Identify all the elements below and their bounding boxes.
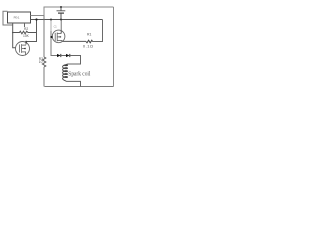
resistor R1 0.1ohm [86,40,93,43]
wire gate drop to Q2 and diodes [50,20,52,32]
wire between diodes [61,55,66,57]
transistor Q1 (MOSFET) [16,42,30,56]
svg-text:R1: R1 [87,33,91,37]
wire Q2 drain up to rail [60,30,62,33]
svg-text:0.1Ω: 0.1Ω [83,44,94,49]
resistor R2 (horizontal 10k) [13,31,37,34]
wire branch x36.5 from rail to Q1 drain [26,20,37,45]
capacitor C1 plates [60,7,62,11]
wire Q2 gate stub [51,36,53,38]
wire R3 bottom to rail [43,67,45,87]
junction R2 branch at inner rail [35,18,37,20]
wire left loop from box [3,11,13,25]
junction R3 line crossing inner rail [43,19,45,21]
wire box bottom pin to Q1 gate [13,23,16,48]
svg-text:R2: R2 [24,27,28,31]
wire right inner drop to R1 [93,20,103,42]
wire Q2 source to R1 [61,40,86,41]
wire R3 branch vertical [43,16,45,58]
svg-text:10K: 10K [23,34,30,38]
junction Q1 drain node [25,41,27,43]
svg-text:C1: C1 [54,25,58,29]
wire pin2 rail [31,19,103,21]
svg-text:10: 10 [39,60,43,64]
wire right edge V+ rail down [113,7,115,87]
junction gate drop at inner rail [50,19,52,21]
junction Q2 gate node [50,36,52,38]
diode D1 [57,54,61,57]
junction R2 left at gate line [12,32,14,34]
box U1 (pulse generator) [8,12,31,23]
wire bottom rail [45,86,114,88]
junction C1 bottom / Q2 drain at inner rail [60,19,62,21]
wire diodes to coil top [68,56,81,65]
spark coil inductor L1 [63,64,68,82]
transistor Q2 (MOSFET) [52,30,65,43]
resistor R3 [42,57,45,67]
svg-text:Spark coil: Spark coil [68,71,91,77]
wire pin1 right of box to top rail [31,7,114,16]
diode D2 [66,54,70,57]
wire box bottom stub [24,23,26,27]
svg-text:PG-1: PG-1 [14,16,20,20]
junction C1 top at V+ rail [60,6,62,8]
wire coil bottom to rail [67,81,81,86]
